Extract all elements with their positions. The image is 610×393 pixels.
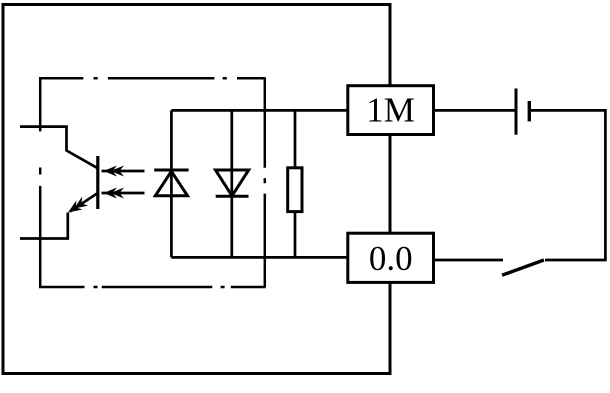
svg-text:1M: 1M [366,91,415,130]
svg-text:0.0: 0.0 [369,239,413,278]
